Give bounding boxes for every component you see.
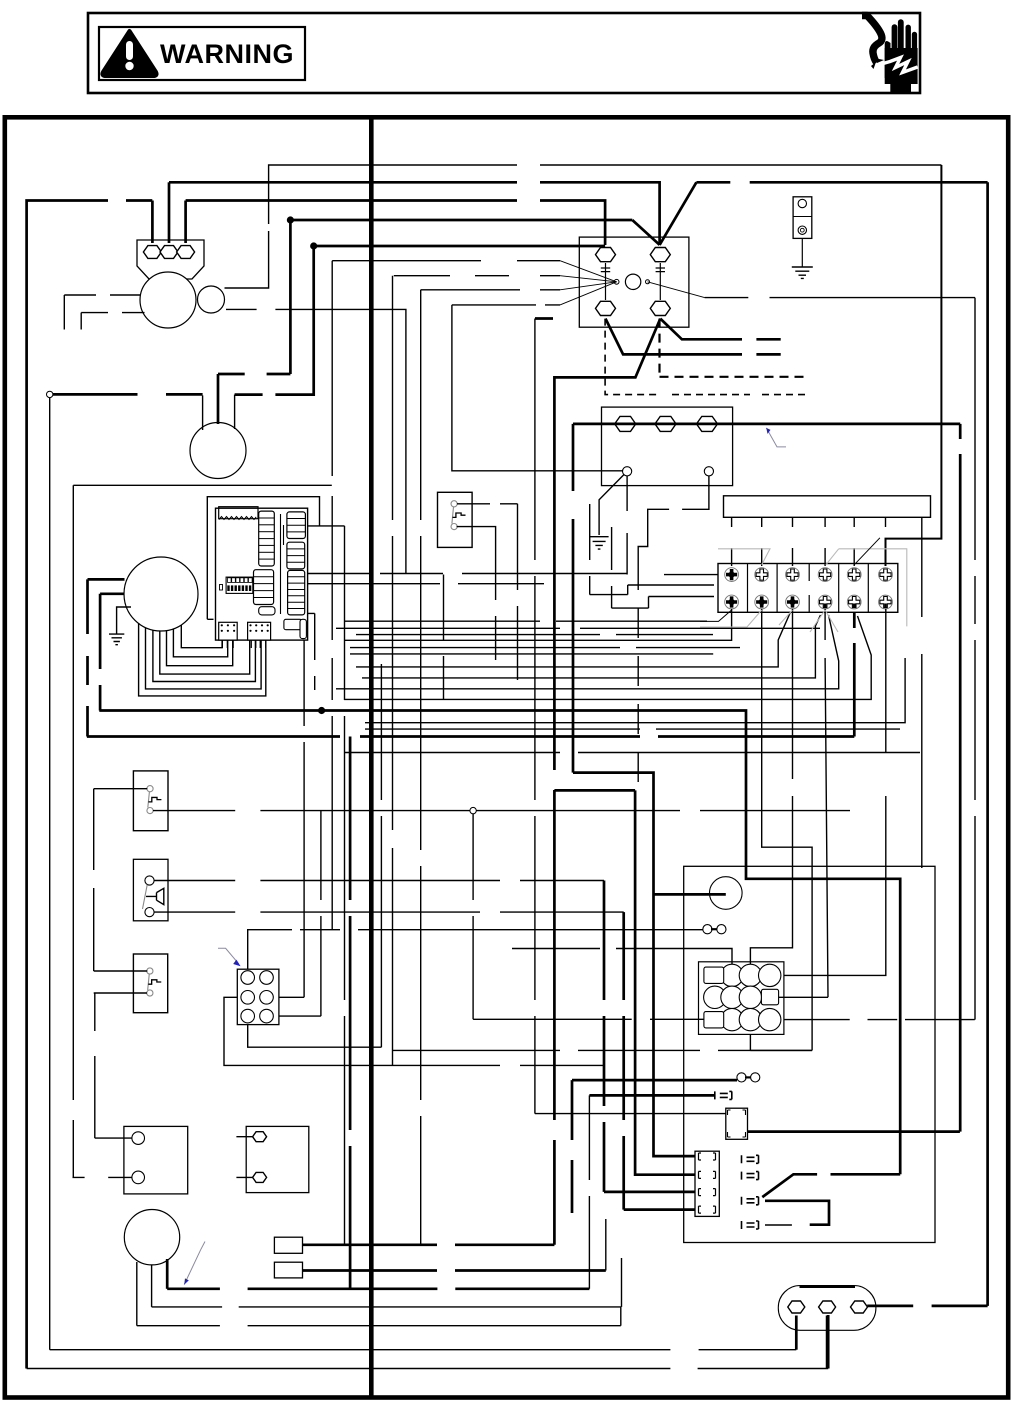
wire ctl line c — [421, 289, 560, 291]
leader arrow defrost — [184, 1242, 205, 1285]
compressor terminal cover — [137, 240, 204, 279]
board bottom connector 2 — [248, 622, 271, 640]
terminal screw r1c6 — [879, 568, 893, 582]
plug 2x3 pin 5 — [241, 1009, 255, 1023]
wire PS3 top — [94, 970, 148, 972]
leader fan d — [560, 282, 617, 305]
leader grey screw2 — [700, 610, 762, 627]
wire mid y621 — [344, 620, 707, 622]
leader coil right — [648, 282, 705, 298]
free plug symbol 4 — [742, 1221, 759, 1229]
wire y948 link — [512, 949, 732, 965]
wire compressor left stub 2 — [81, 312, 144, 314]
terminal screw r1c5 — [847, 568, 861, 582]
wire compressor left stub 1 — [64, 294, 140, 296]
wire compressor stub2 drop — [80, 313, 82, 330]
wire x73 drop — [72, 485, 74, 1177]
wire x605 riser — [605, 1219, 607, 1271]
compressor terminal C — [143, 246, 161, 259]
svg-text:WARNING: WARNING — [160, 39, 294, 69]
defrost control enclosure — [684, 866, 935, 1242]
blower motor ground wire — [117, 607, 131, 634]
wire ctl line b — [394, 275, 560, 277]
compressor aux circle — [198, 286, 225, 313]
start box terminal 1 — [253, 1132, 267, 1142]
wire y394 left — [53, 393, 203, 396]
wire aux to screw1 — [226, 309, 406, 573]
wire x473 drop — [472, 814, 474, 1020]
plug column bracket 4 — [699, 1206, 716, 1213]
wire primary left drop — [572, 424, 575, 773]
terminal screw r2c5 — [847, 595, 861, 609]
warning triangle icon — [102, 31, 156, 76]
board bottom connector 1 — [219, 622, 238, 640]
leader fan b — [560, 276, 617, 282]
low pressure switch LPS — [133, 771, 168, 831]
wire compressor S up — [168, 182, 171, 243]
free plug symbol 1 — [742, 1155, 759, 1163]
wire T2 dashed down — [660, 319, 808, 377]
wire x589 riser — [589, 504, 591, 595]
contactor coil terminal a — [614, 279, 619, 284]
wire plug oval lead2 — [826, 1316, 829, 1369]
wire mid y628 — [336, 627, 820, 629]
ground symbol blower — [109, 634, 124, 645]
transformer terminal H3 — [697, 416, 718, 431]
terminal screw r2c4 — [818, 595, 832, 609]
wire plugB thin — [534, 1113, 536, 1115]
high pressure switch HPS — [438, 492, 473, 547]
wire step B — [612, 597, 714, 609]
wire net2 diagonal — [660, 182, 697, 245]
wire x344 drop — [344, 526, 346, 1245]
terminal block divider mid — [808, 564, 810, 613]
transformer terminal H2 — [655, 416, 676, 431]
transformer LV terminal C — [623, 467, 632, 476]
wire plug4 stub — [765, 1224, 792, 1226]
wire DFT top run — [154, 880, 604, 882]
leader grey left — [718, 549, 770, 565]
crankcase heater circle — [710, 877, 743, 910]
wire defrost lead2 run — [152, 1306, 622, 1308]
wire x620 riser — [620, 1307, 622, 1326]
wire 2x3 top riser — [248, 930, 703, 970]
terminal screw r2c2 — [755, 595, 769, 609]
compressor terminal R — [177, 246, 195, 259]
plug 2x3 pin 4 — [260, 991, 274, 1005]
board dip switches — [226, 577, 253, 593]
capacitor terminal 1 — [132, 1132, 145, 1145]
leader fan a — [560, 261, 617, 282]
plug 2x3 pin 6 — [260, 1009, 274, 1023]
wire net3 left branch — [27, 201, 153, 1369]
plug B housing — [726, 1108, 748, 1139]
terminal block divider 2 — [776, 564, 778, 613]
wire screw2 path — [762, 609, 812, 1051]
wire y1349 run — [50, 1349, 797, 1351]
wire T1 path — [606, 319, 781, 355]
wire HPS bottom — [457, 527, 496, 660]
wire T2 path a — [660, 319, 780, 340]
wire board conn1 pin 3 — [232, 640, 234, 648]
wire T2 to plug1 — [303, 1243, 555, 1246]
wire x535 long drop — [534, 319, 536, 1114]
wire heater branch — [654, 893, 726, 896]
free plug symbol 2 — [742, 1172, 759, 1180]
wire screw3 path — [750, 609, 792, 964]
wire ctl line d — [452, 304, 560, 306]
control board body — [216, 508, 308, 640]
wire header pin 4 — [824, 517, 826, 566]
defrost thermostat DFT — [133, 859, 168, 921]
wire defrost lead1 run — [137, 1325, 621, 1327]
compressor motor circle — [140, 272, 196, 328]
wire blowerA drop — [86, 579, 89, 736]
wire mid y613 — [308, 613, 315, 690]
wire net5 drop — [235, 246, 314, 395]
wire HPS top — [457, 504, 518, 680]
wire cap2 — [73, 1176, 132, 1178]
wire mid y688 — [336, 615, 839, 689]
contactor box — [579, 237, 689, 327]
molex grid pins — [721, 964, 743, 986]
wire header pin 6 — [885, 517, 887, 566]
wire fan lead 1 — [202, 395, 204, 430]
board relay bank A1 — [259, 511, 275, 566]
wire net1 aux top — [225, 165, 942, 288]
wire primary bus — [573, 423, 960, 426]
contactor coil terminal b — [646, 280, 650, 284]
plug 2x3 pin 1 — [241, 971, 255, 985]
wire defrost lead 1 down — [136, 1262, 138, 1326]
compressor plug oval — [778, 1286, 876, 1331]
leader arrow 2x3 — [218, 948, 239, 963]
wire LPS top — [94, 788, 148, 790]
wire header pin 2 — [761, 517, 763, 566]
wire x589 plugA riser — [588, 1095, 590, 1288]
board relay bank B3 — [288, 570, 305, 615]
wire defrost lead3 run — [167, 1287, 589, 1290]
wire fan lead 3 — [234, 395, 236, 429]
wire blower lead 3 — [167, 631, 233, 666]
quick connect plug 1 — [274, 1237, 302, 1253]
plug column bracket 3 — [699, 1189, 716, 1196]
wire mid y634 — [356, 634, 713, 636]
wire net4 drop — [218, 220, 290, 374]
wire x921 drop — [921, 517, 923, 868]
wire ground lug stem — [801, 238, 803, 267]
wire 2x3 right mid — [279, 640, 304, 997]
board relay bank B2 — [287, 542, 305, 569]
wire plugA line — [589, 1094, 714, 1097]
wire net4 diagonal — [632, 220, 659, 245]
wire mid y752 — [344, 752, 920, 754]
board small block A3 — [259, 607, 275, 615]
leader grey screw4v — [810, 610, 838, 632]
terminal block divider 4 — [867, 564, 869, 613]
plug column bracket 2 — [699, 1171, 716, 1178]
wire mid y653 — [350, 653, 713, 655]
wire blower lead 1 — [181, 625, 222, 648]
wire x638 drop — [637, 560, 639, 790]
wire net2 S line — [169, 182, 660, 245]
wire board conn2 pin 4 — [265, 640, 267, 648]
wire x93 upper — [93, 789, 95, 971]
wire plugB to x960 — [748, 1130, 960, 1133]
wire net2 right drop — [986, 182, 989, 1306]
wire x350 drop — [349, 737, 352, 1289]
wire blowerB stub — [100, 592, 124, 595]
electric shock hand icon — [862, 16, 918, 94]
wire ctl line a — [332, 260, 560, 262]
wire net3 plug riser — [827, 1315, 830, 1369]
wire DFT bottom run — [154, 911, 624, 913]
control board outer wire — [207, 497, 319, 620]
wire header pin 5 — [853, 517, 855, 566]
wire x635 path — [635, 790, 695, 1174]
board top connector — [219, 507, 258, 519]
terminal block — [718, 564, 898, 613]
wire board conn2 pin 2 — [255, 640, 257, 648]
wire thick A tail — [762, 1174, 900, 1197]
board relay bank A2 — [254, 570, 274, 605]
wire header pin 3 — [792, 517, 794, 566]
free plug symbol 3 — [742, 1197, 759, 1205]
wire plug2 run — [303, 1269, 606, 1272]
wire transformer ground leader — [599, 475, 624, 536]
wire mid y699 — [344, 616, 871, 699]
wire board conn1 pin 2 — [226, 640, 228, 648]
start box terminal 2 — [253, 1172, 267, 1182]
board relay bank B1 — [287, 512, 306, 539]
wire contactor aux stub — [535, 317, 553, 320]
plug symbol A — [715, 1091, 732, 1099]
plug column bracket 1 — [699, 1153, 716, 1160]
wire thick B — [87, 735, 854, 738]
wire branch y485 — [73, 484, 332, 486]
wire mid y722 — [365, 658, 905, 723]
wire x604 drop — [603, 881, 606, 1192]
wire screw1 down — [344, 609, 732, 641]
junction dot1 — [287, 216, 294, 223]
contactor contact right — [656, 263, 665, 300]
terminal screw r2c1 — [725, 595, 739, 609]
wire T1 dashed down — [605, 319, 807, 395]
wire mid y729 — [365, 728, 900, 730]
wire step A — [590, 585, 714, 595]
run capacitor box — [124, 1126, 188, 1194]
junction circle x50 — [47, 391, 53, 397]
wire blower lead 7 — [139, 623, 266, 696]
wire right drop x975 — [974, 298, 976, 1020]
board trace line — [280, 514, 282, 614]
wire net4 from dot1 — [290, 219, 632, 222]
warning banner inner box — [99, 27, 305, 80]
compressor plug hex 2 — [819, 1301, 836, 1313]
blower motor circle — [124, 557, 198, 631]
terminal screw r2c6 — [879, 595, 893, 609]
contactor contact left — [601, 263, 610, 300]
wire over plug oval — [800, 1285, 856, 1288]
wire 2x3 left mid — [224, 997, 604, 1065]
wire board y525 — [308, 525, 345, 527]
wire primary right drop — [959, 424, 962, 1132]
wire x621 riser — [621, 1258, 623, 1307]
contactor terminal T1 — [596, 301, 616, 315]
wire LV right path — [638, 476, 709, 560]
molex connector grid — [699, 962, 784, 1035]
wire screw6 path — [784, 609, 886, 976]
wire mid y647 — [350, 647, 740, 649]
voltage divider line — [369, 117, 374, 1396]
wire y1019 left — [473, 1018, 704, 1020]
compressor terminal S — [160, 246, 178, 259]
terminal strip header — [724, 496, 931, 518]
terminal block divider 3 — [838, 564, 840, 613]
board bottom rect — [284, 619, 302, 629]
start components box — [246, 1126, 309, 1192]
wire thick A — [99, 711, 900, 1175]
wire defrost lead 2 down — [151, 1265, 153, 1307]
plug connector 2x3 — [237, 969, 279, 1024]
wire x320 drop — [279, 811, 321, 1016]
contactor coil — [625, 274, 640, 289]
wire x623 drop — [622, 912, 625, 1210]
terminal block divider 1 — [747, 564, 749, 613]
wire mid y677 — [362, 615, 821, 678]
wire x535 to plugB — [535, 1113, 726, 1115]
terminal screw r1c4 — [818, 568, 832, 582]
ground symbol top right — [792, 267, 813, 278]
leader grey block right — [839, 549, 907, 627]
wire start box stub 1 — [236, 1136, 252, 1138]
transformer terminal H1 — [615, 416, 636, 431]
wire blower lead 2 — [173, 629, 227, 657]
transformer LV terminal R — [704, 467, 713, 476]
contactor terminal L1 — [596, 248, 616, 262]
wire y1019 right — [784, 1019, 975, 1021]
leader grey diag b4 — [826, 549, 839, 565]
wire y574 run — [308, 574, 718, 575]
wire compressor R up — [184, 201, 187, 244]
leader diag screw1 — [700, 610, 732, 621]
wire blower lead 6 — [146, 628, 262, 689]
fuse link 2 — [737, 1073, 746, 1082]
wire board conn1 pin 1 — [221, 640, 223, 648]
terminal screw r2c3 — [786, 595, 800, 609]
wire ctl b drop — [392, 276, 394, 1066]
wire screw4 path — [779, 609, 828, 998]
wire defrost lead 3 down — [166, 1259, 169, 1289]
wire blower lead 4 — [160, 631, 250, 674]
wire net1 right drop — [886, 165, 942, 566]
wire blowerB drop — [99, 594, 102, 711]
wire 2x3 bottom — [248, 664, 382, 1047]
leader diag screw5 — [854, 538, 880, 565]
contactor terminal L2 — [650, 248, 670, 262]
wire fan lead 2 — [217, 374, 220, 424]
wire cap1 — [94, 993, 147, 1138]
wire ctl a drop — [331, 261, 333, 930]
wire mid y583 — [308, 583, 544, 585]
compressor plug hex 1 — [788, 1301, 805, 1313]
condenser fan motor circle — [190, 423, 246, 479]
plug column housing — [695, 1151, 719, 1216]
wire board conn2 pin 1 — [250, 640, 252, 648]
quick connect plug 2 — [274, 1262, 302, 1278]
wire coil right line — [705, 297, 975, 299]
wire plug oval lead1 — [795, 1316, 798, 1350]
wire LPS bottom run — [153, 810, 850, 812]
wire header pin 1 — [731, 517, 733, 566]
wire compressor C up — [151, 201, 154, 244]
wire net2 to plug oval — [867, 1305, 987, 1308]
leader fan c — [560, 282, 617, 290]
wire blowerA stub — [88, 578, 125, 581]
wire x50 drop — [49, 398, 51, 1350]
junction circle y810 — [470, 807, 476, 813]
wire x443 drop — [443, 575, 445, 701]
defrost motor circle — [124, 1210, 179, 1265]
wire fuse2 line — [572, 1079, 737, 1082]
plug 2x3 pin 3 — [241, 991, 255, 1005]
contactor terminal T2 — [650, 301, 670, 315]
wire y1050 mid — [393, 1049, 813, 1051]
terminal screw r1c2 — [755, 568, 769, 582]
wire x611 riser — [611, 527, 613, 608]
wire net3 R line — [186, 201, 605, 246]
wire net2 dash right — [696, 181, 987, 184]
wire plug3 loop — [765, 1201, 829, 1225]
ground lug circle 1 — [798, 199, 806, 207]
terminal screw r1c1 — [725, 568, 739, 582]
wire net5 from dot2 — [314, 245, 605, 248]
wire ctl c drop — [420, 290, 422, 1245]
wire start box stub 2 — [236, 1176, 252, 1178]
terminal screw r1c3 — [786, 568, 800, 582]
wire y1050 link — [750, 1034, 812, 1050]
wire compressor stub1 drop — [63, 295, 65, 330]
warning banner outer box — [88, 13, 920, 93]
wire ctl d drop — [452, 305, 623, 471]
ground lug circle 2 — [798, 226, 806, 234]
leader diag screw3 — [779, 610, 793, 625]
wire T2 path b — [554, 319, 660, 1245]
ground symbol transformer — [590, 537, 609, 549]
wire y790 link — [554, 789, 635, 792]
capacitor terminal 2 — [132, 1171, 145, 1184]
fuse link 1 — [703, 925, 712, 934]
junction dot2 — [310, 242, 317, 249]
transformer box — [602, 407, 733, 486]
wire x572 drop — [571, 1080, 574, 1213]
leader arrow artifact — [766, 428, 786, 447]
wire blower lead 5 — [153, 630, 256, 682]
wire mid y666 — [356, 612, 791, 667]
wire board conn2 pin 3 — [259, 640, 261, 648]
compressor plug hex 3 — [851, 1301, 868, 1313]
high pressure switch HPS2 — [133, 954, 167, 1013]
board trace line 2 — [283, 525, 285, 545]
plug 2x3 pin 2 — [260, 971, 274, 985]
wire P1 step — [573, 773, 695, 1157]
wire LV left down — [626, 476, 628, 575]
junction dot3 — [318, 707, 325, 714]
ground lug block — [793, 197, 812, 239]
wire net3 bottom run — [27, 1368, 829, 1370]
wire screw5 link — [853, 612, 856, 737]
